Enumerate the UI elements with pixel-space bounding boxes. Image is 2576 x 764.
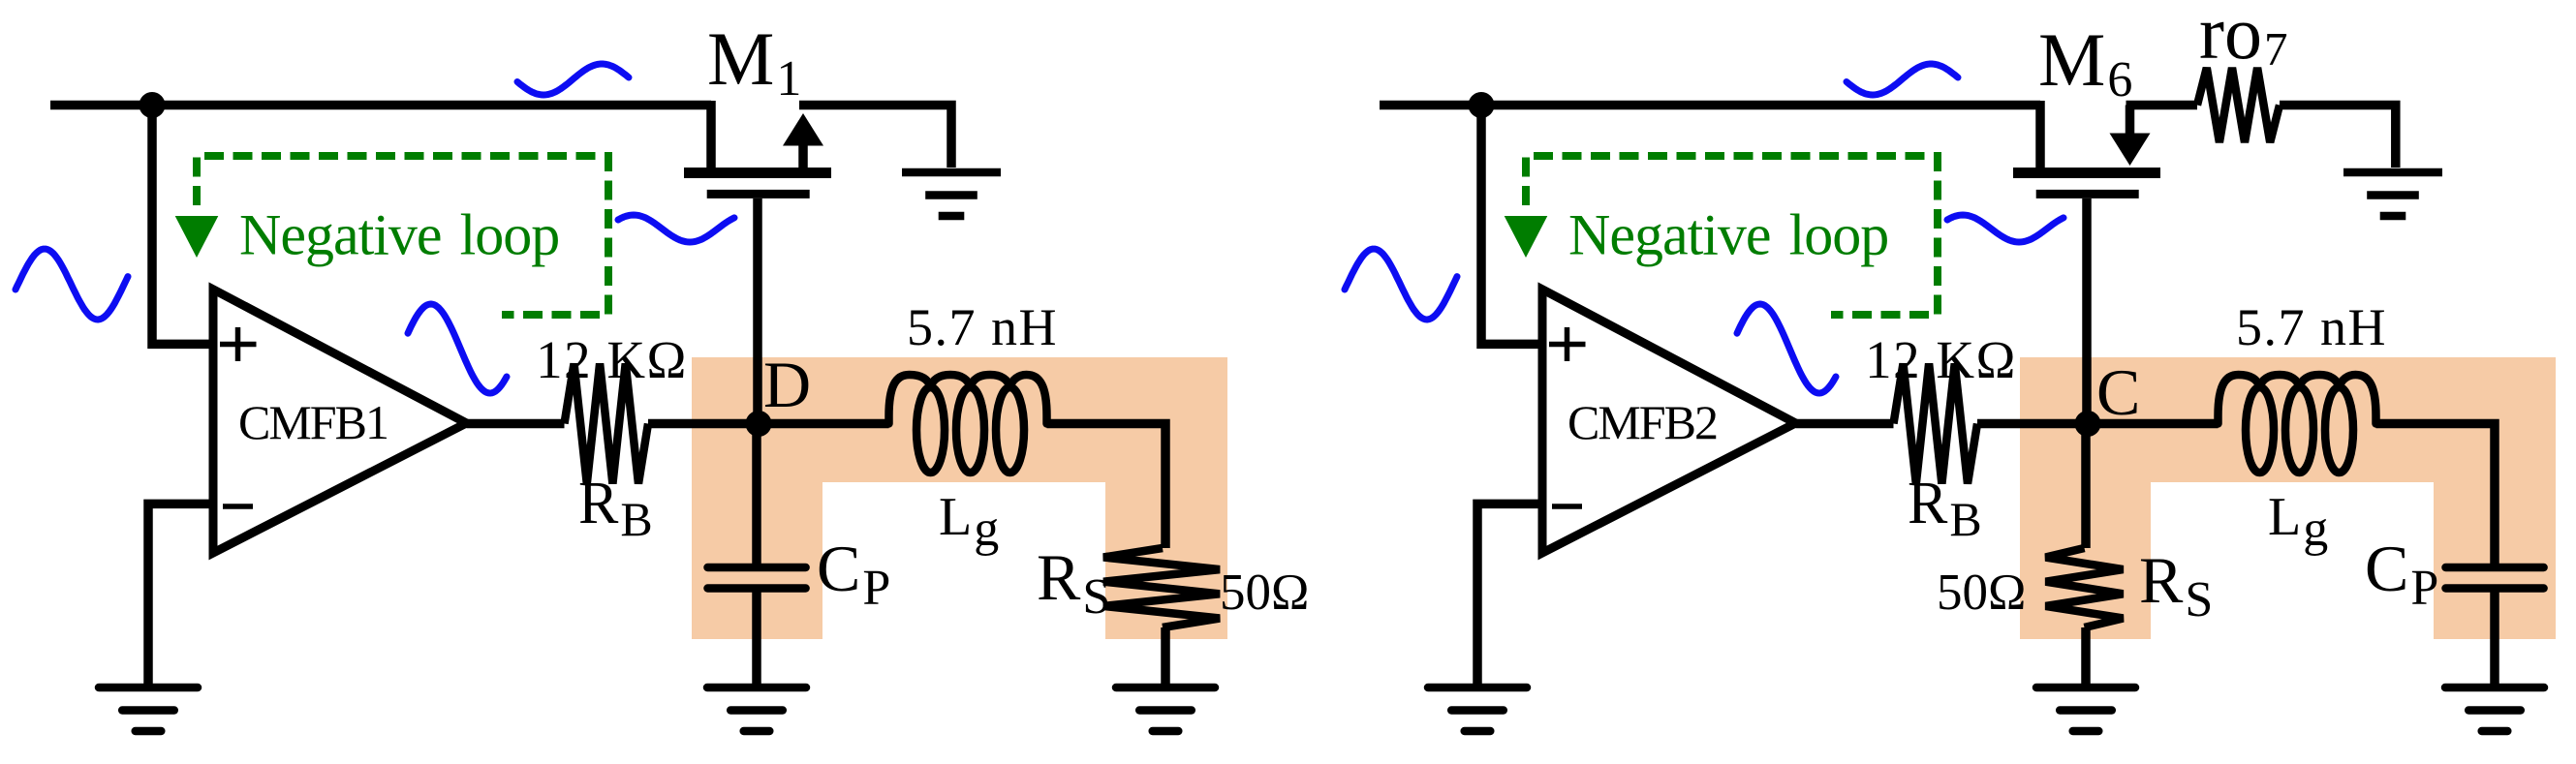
svg-text:5.7 nH: 5.7 nH (907, 298, 1058, 356)
sine wave at op-amp output (408, 304, 507, 393)
wire junction to op-amp + input (1481, 106, 1542, 345)
node D junction (746, 411, 772, 437)
resistor RB 12 Kohm (565, 364, 649, 484)
capacitor CP plates (2446, 564, 2544, 572)
ground at op-amp - input (1428, 688, 1527, 731)
resistor RS 50 ohm (1103, 548, 1220, 627)
ground at M1 bulk (902, 172, 1001, 216)
op-amp + pin mark (220, 342, 257, 348)
op-amp CMFB1 (213, 290, 467, 553)
sine wave far left (1345, 249, 1457, 320)
ground below CP (707, 688, 806, 731)
svg-text:CMFB2: CMFB2 (1567, 395, 1717, 449)
wire inductor to RS branch (1047, 424, 1166, 549)
svg-text:CMFB1: CMFB1 (238, 395, 388, 449)
transistor M6 source wire (2035, 101, 2045, 168)
ground below CP (2445, 688, 2544, 731)
sine wave right of loop box (618, 215, 734, 242)
capacitor CP plates (708, 564, 806, 572)
svg-text:ro7: ro7 (2199, 0, 2287, 76)
transistor M1 drain arrow (798, 145, 808, 168)
svg-text:5.7 nH: 5.7 nH (2236, 298, 2387, 356)
svg-text:D: D (763, 348, 811, 421)
negative feedback loop dashed path (197, 156, 608, 315)
node C junction (2075, 411, 2101, 437)
inductor Lg 5.7nH (2219, 375, 2376, 473)
svg-text:CP: CP (817, 532, 890, 616)
svg-text:12 KΩ: 12 KΩ (1865, 330, 2017, 389)
wire RB to node C (1977, 419, 2219, 429)
wire RB to node D (648, 419, 889, 429)
node C matching-network highlight (2020, 357, 2556, 639)
resistor RB 12 Kohm (1894, 364, 1978, 484)
svg-text:M6: M6 (2038, 17, 2132, 107)
wire RS to ground (1161, 627, 1170, 688)
wire CP to ground (2490, 589, 2499, 688)
sine wave far left (16, 249, 128, 320)
wire op-amp output (1796, 419, 1894, 429)
sine wave right of loop box (1947, 215, 2064, 242)
wire drain to ro7 (2126, 101, 2198, 110)
svg-text:RS: RS (1037, 540, 1110, 625)
sine wave at op-amp output (1737, 304, 1836, 393)
svg-text:50Ω: 50Ω (1937, 565, 2026, 621)
svg-text:C: C (2096, 355, 2140, 429)
transistor gate wire (2082, 199, 2092, 424)
transistor gate bar (707, 190, 810, 199)
svg-text:Negative loop: Negative loop (1568, 203, 1888, 267)
svg-text:Negative loop: Negative loop (239, 203, 559, 267)
negative feedback loop dashed path (1526, 156, 1938, 315)
wire RS to ground (2081, 627, 2091, 688)
wire drain to bulk ground (799, 106, 951, 168)
ground at ro7 (2343, 172, 2442, 216)
svg-text:RS: RS (2139, 543, 2213, 627)
transistor channel bar (684, 168, 831, 178)
transistor M6 drain arrow (2126, 106, 2135, 135)
inductor Lg 5.7nH (889, 375, 1047, 473)
node VDD junction (140, 92, 166, 118)
resistor RS 50 ohm (2046, 548, 2124, 627)
wire node C to RS (2081, 424, 2091, 549)
wire op-amp - input (148, 504, 213, 688)
node D matching-network highlight (692, 357, 1227, 639)
wire op-amp - input (1477, 504, 1542, 688)
ground below RS (2036, 688, 2135, 731)
transistor gate bar (2036, 190, 2139, 199)
wire VDD rail (50, 101, 711, 110)
resistor ro7 (2197, 68, 2280, 142)
transistor channel bar (2013, 168, 2160, 178)
wire inductor to CP branch (2376, 424, 2496, 568)
negative loop arrowhead (175, 216, 219, 258)
transistor M1 source wire (706, 101, 716, 168)
wire ro7 to ground (2280, 106, 2396, 168)
ground below RS (1116, 688, 1215, 731)
svg-text:CP: CP (2365, 532, 2438, 616)
sine wave above rail (1847, 64, 1958, 95)
op-amp + pin mark (1549, 342, 1586, 348)
wire node D to CP (752, 424, 761, 568)
node VDD junction (1469, 92, 1495, 118)
svg-text:Lg: Lg (939, 487, 999, 557)
svg-text:M1: M1 (707, 16, 801, 107)
svg-text:Lg: Lg (2268, 487, 2328, 557)
ground at op-amp - input (99, 688, 198, 731)
op-amp - pin mark (1552, 504, 1582, 509)
svg-text:50Ω: 50Ω (1220, 565, 1309, 621)
wire CP to ground (752, 589, 761, 688)
wire op-amp output (467, 419, 565, 429)
op-amp - pin mark (223, 504, 253, 509)
wire junction to op-amp + input (152, 106, 213, 345)
svg-text:12 KΩ: 12 KΩ (536, 330, 688, 389)
op-amp CMFB2 (1542, 290, 1796, 553)
transistor gate wire (753, 199, 762, 424)
sine wave above rail (517, 64, 629, 95)
wire VDD rail (1380, 101, 2040, 110)
negative loop arrowhead (1505, 216, 1548, 258)
